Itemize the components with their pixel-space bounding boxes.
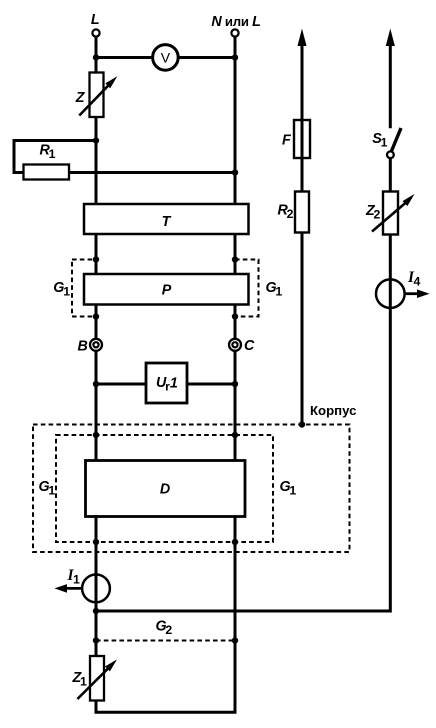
switch S1 <box>392 128 402 151</box>
junction dot D shield left bottom <box>93 539 99 545</box>
wire R1 loop <box>14 141 235 173</box>
transformer T <box>84 204 249 234</box>
wire bottom horizontal to right branch <box>96 158 390 611</box>
wire top horizontal through V <box>96 56 235 59</box>
current probe I1 <box>82 575 110 603</box>
junction dot at L/V <box>93 54 99 60</box>
arrow up fuse branch <box>298 31 306 46</box>
junction dot at N/V <box>232 54 238 60</box>
shield box G1 left of P (dashed) <box>72 260 97 317</box>
voltmeter V <box>153 45 179 71</box>
svg-text:C: C <box>244 338 255 354</box>
svg-text:T: T <box>162 214 172 230</box>
wire L rail / bottom link / N rail <box>96 37 235 713</box>
terminal C <box>229 339 241 351</box>
junction dot G2 right <box>232 637 238 643</box>
junction dot G2 left <box>93 637 99 643</box>
resistor R1 <box>24 165 70 180</box>
wire S1 branch above switch <box>389 38 392 128</box>
component P <box>84 274 249 305</box>
arrow up S1 branch <box>386 31 394 46</box>
junction dot D shield right top <box>232 432 238 438</box>
impedance Z1 (variable) <box>90 656 104 701</box>
source Ur1 <box>146 363 187 403</box>
wire Ur1 horizontal <box>96 383 235 386</box>
wire fuse branch vertical <box>301 38 304 425</box>
junction dot P shield right top <box>232 256 238 262</box>
junction dot R1 top tap <box>93 137 99 143</box>
terminal N или L <box>231 29 238 36</box>
junction dot D shield left top <box>93 432 99 438</box>
junction dot P shield left top <box>93 256 99 262</box>
svg-text:Z: Z <box>75 90 86 106</box>
junction dot D shield right bottom <box>232 539 238 545</box>
current probe I4 <box>376 279 405 308</box>
svg-text:D: D <box>160 481 170 497</box>
junction dot Ur1 left <box>93 381 99 387</box>
svg-text:L: L <box>91 12 100 28</box>
junction dot bottom left <box>93 608 99 614</box>
junction dot chassis tap <box>299 421 305 427</box>
junction dot P shield right bottom <box>232 313 238 319</box>
fuse F <box>294 120 310 158</box>
device D <box>86 461 246 517</box>
junction dot R1 right end <box>232 169 238 175</box>
svg-text:B: B <box>78 339 88 355</box>
net G2 (dashed wire) <box>96 640 235 642</box>
impedance Z (variable) <box>90 73 104 118</box>
chassis box Корпус (dashed) <box>33 425 350 553</box>
svg-text:Корпус: Корпус <box>310 403 356 418</box>
svg-text:V: V <box>161 50 171 66</box>
shield box G1 around D (dashed) <box>56 435 273 542</box>
terminal B <box>90 339 102 351</box>
shield box G1 right of P (dashed) <box>235 260 259 317</box>
resistor R2 <box>295 192 309 233</box>
terminal L <box>92 29 99 36</box>
impedance Z2 (variable) <box>383 192 398 235</box>
svg-text:F: F <box>282 133 292 149</box>
junction dot P shield left bottom <box>93 313 99 319</box>
svg-text:P: P <box>162 283 172 299</box>
svg-text:N или L: N или L <box>211 14 260 30</box>
junction dot Ur1 right <box>232 381 238 387</box>
